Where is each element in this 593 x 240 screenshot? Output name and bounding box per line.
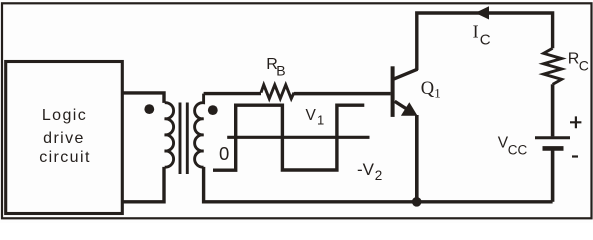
resistor RB zigzag bbox=[261, 85, 294, 99]
label battery minus bbox=[572, 155, 578, 157]
wire box to transformer primary top bbox=[122, 93, 164, 103]
svg-text:1: 1 bbox=[434, 85, 441, 100]
svg-text:Q: Q bbox=[421, 79, 435, 99]
wire RB to transistor base bbox=[294, 92, 391, 96]
wire transformer primary bottom to box bbox=[122, 167, 164, 202]
battery VCC positive plate bbox=[535, 136, 570, 139]
current arrow IC on top rail bbox=[475, 6, 489, 19]
transistor Q1 collector lead bbox=[394, 69, 418, 79]
label battery plus bbox=[570, 116, 581, 128]
wire collector riser and top rail bbox=[417, 13, 553, 70]
junction node dot on bottom rail bbox=[412, 197, 422, 207]
svg-text:Logic: Logic bbox=[42, 107, 87, 124]
wire RC to battery bbox=[551, 84, 555, 136]
svg-text:drive: drive bbox=[43, 130, 85, 147]
svg-text:2: 2 bbox=[375, 168, 383, 183]
transformer core line 2 bbox=[186, 103, 189, 175]
svg-text:CC: CC bbox=[508, 143, 528, 158]
transistor Q1 base bar bbox=[391, 66, 395, 117]
input waveform zero baseline bbox=[227, 136, 369, 139]
transistor Q1 emitter lead bbox=[395, 101, 408, 109]
svg-text:-V: -V bbox=[357, 160, 375, 179]
wire secondary top to resistor RB bbox=[204, 92, 261, 95]
svg-text:C: C bbox=[579, 58, 589, 74]
svg-text:V: V bbox=[306, 107, 317, 124]
svg-text:0: 0 bbox=[219, 143, 229, 164]
transistor Q1 emitter arrowhead bbox=[401, 102, 418, 116]
svg-text:1: 1 bbox=[317, 113, 324, 128]
wire battery to bottom rail bbox=[551, 151, 555, 202]
resistor RC zigzag bbox=[544, 48, 562, 84]
transformer T1 primary winding bbox=[165, 103, 174, 167]
wire emitter to bottom rail bbox=[415, 115, 419, 202]
input waveform square wave trace bbox=[213, 105, 364, 170]
svg-text:R: R bbox=[568, 51, 580, 68]
svg-text:circuit: circuit bbox=[39, 149, 91, 166]
transformer secondary polarity dot bbox=[208, 105, 218, 115]
battery VCC negative plate bbox=[543, 146, 564, 151]
transformer primary polarity dot bbox=[144, 104, 154, 114]
svg-text:I: I bbox=[473, 22, 479, 42]
svg-text:C: C bbox=[480, 32, 491, 49]
transformer secondary winding bbox=[195, 94, 204, 168]
transformer core line 1 bbox=[179, 103, 182, 175]
svg-text:B: B bbox=[276, 63, 285, 79]
logic drive circuit block box bbox=[6, 62, 123, 214]
wire secondary bottom and bottom rail to right bbox=[204, 167, 553, 202]
